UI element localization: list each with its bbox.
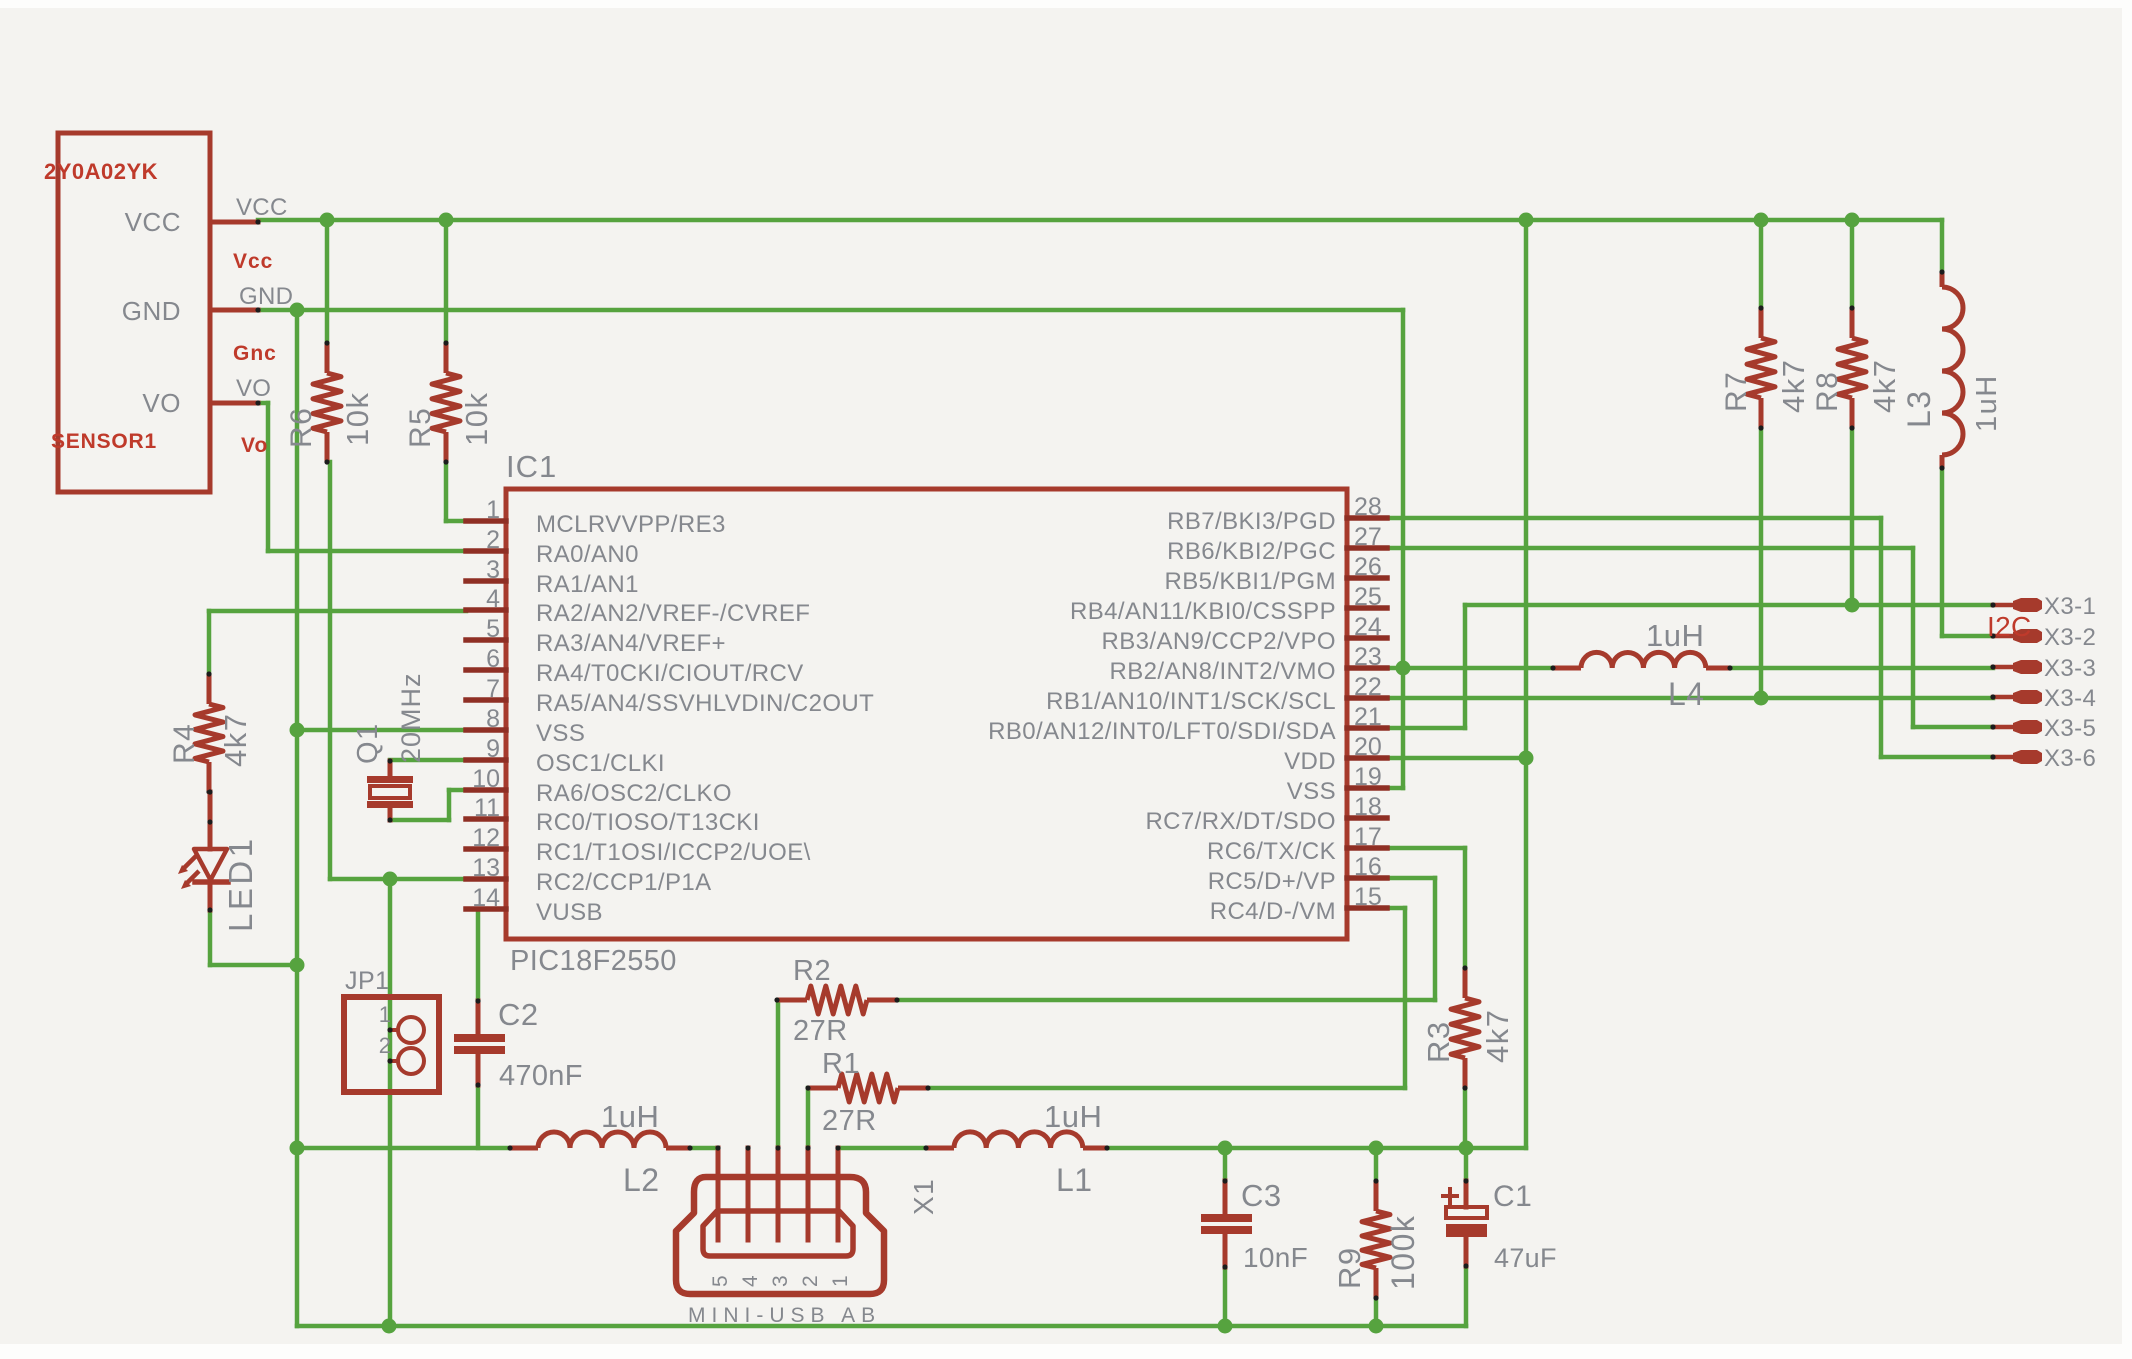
- junction VCC/main vertical: [1519, 213, 1534, 228]
- connector pad X3-1: [1993, 603, 2016, 608]
- inductor L1 1uH: [926, 1146, 954, 1151]
- svg-text:11: 11: [474, 794, 500, 822]
- ic pin 23 stub: [1347, 665, 1387, 671]
- wire GND vertical left: [295, 310, 300, 1326]
- svg-text:L3: L3: [1901, 389, 1937, 428]
- wire pin23 GND to L4 and X3-3: [1387, 666, 1553, 671]
- svg-text:1uH: 1uH: [1646, 618, 1704, 653]
- wire RA2 pin4: [209, 609, 466, 614]
- svg-text:1: 1: [379, 1002, 391, 1027]
- ic pin 8 stub: [466, 727, 506, 733]
- wire VSS pin8: [297, 728, 466, 733]
- svg-text:RC1/T1OSI/ICCP2/UOE\: RC1/T1OSI/ICCP2/UOE\: [536, 839, 811, 866]
- svg-text:2Y0A02YK: 2Y0A02YK: [44, 159, 158, 184]
- connector pad X3-3: [1993, 665, 2016, 670]
- svg-text:RB2/AN8/INT2/VMO: RB2/AN8/INT2/VMO: [1110, 658, 1336, 685]
- svg-text:RA5/AN4/SSVHLVDIN/C2OUT: RA5/AN4/SSVHLVDIN/C2OUT: [536, 690, 874, 717]
- ic pin 3 stub: [466, 578, 506, 584]
- wire GND rail: [258, 308, 1403, 313]
- ic pin 12 stub: [466, 846, 506, 852]
- svg-text:4k7: 4k7: [1480, 1009, 1515, 1063]
- svg-text:4k7: 4k7: [218, 713, 253, 767]
- wire USB pin3 to R2: [776, 1000, 781, 1148]
- ic pin 17 stub: [1347, 845, 1387, 851]
- svg-text:RB6/KBI2/PGC: RB6/KBI2/PGC: [1167, 538, 1336, 565]
- svg-text:4: 4: [739, 1275, 762, 1287]
- svg-text:RC4/D-/VM: RC4/D-/VM: [1210, 898, 1336, 925]
- svg-text:100k: 100k: [1385, 1215, 1421, 1290]
- ic pin 4 stub: [466, 607, 506, 613]
- svg-text:3: 3: [486, 556, 500, 584]
- svg-text:18: 18: [1354, 793, 1382, 821]
- svg-text:27R: 27R: [822, 1105, 877, 1137]
- svg-text:2: 2: [379, 1033, 391, 1058]
- ic pin 18 stub: [1347, 815, 1387, 821]
- jumper JP1 pin 2 pad: [398, 1048, 424, 1074]
- wire RC2 pin13: [330, 877, 466, 882]
- svg-text:14: 14: [472, 884, 500, 912]
- svg-text:RA2/AN2/VREF-/CVREF: RA2/AN2/VREF-/CVREF: [536, 600, 810, 627]
- ic pin 10 stub: [466, 787, 506, 793]
- svg-text:JP1: JP1: [345, 967, 390, 995]
- resistor R4 4k7: [207, 674, 212, 704]
- svg-text:X3-5: X3-5: [2044, 715, 2096, 742]
- junction R7/X3-4: [1754, 691, 1769, 706]
- wire USB pin2 to R1: [806, 1088, 811, 1148]
- svg-text:28: 28: [1354, 493, 1382, 521]
- svg-text:10k: 10k: [340, 392, 375, 446]
- wire OSC1 pin9: [390, 758, 466, 763]
- svg-text:VSS: VSS: [536, 720, 585, 747]
- svg-text:X3-4: X3-4: [2044, 685, 2096, 712]
- svg-text:RB3/AN9/CCP2/VPO: RB3/AN9/CCP2/VPO: [1102, 628, 1336, 655]
- ic pin 16 stub: [1347, 875, 1387, 881]
- junction GND/pin23: [1396, 661, 1411, 676]
- resistor R8 4k7: [1850, 308, 1855, 338]
- svg-text:27: 27: [1354, 523, 1382, 551]
- wire pin22 to X3-4: [1387, 696, 1993, 701]
- svg-text:C1: C1: [1493, 1180, 1532, 1213]
- svg-text:RA0/AN0: RA0/AN0: [536, 541, 639, 568]
- connector pad X3-6: [1993, 755, 2016, 760]
- ic pin 1 stub: [466, 518, 506, 524]
- jumper JP1 pin 1 pad: [398, 1017, 424, 1043]
- svg-text:VO: VO: [142, 388, 181, 418]
- svg-text:RC5/D+/VP: RC5/D+/VP: [1208, 868, 1336, 895]
- junction JP1/pin13: [383, 872, 398, 887]
- wire VBUS rail: [1107, 1146, 1526, 1151]
- svg-text:12: 12: [472, 824, 500, 852]
- svg-text:GND: GND: [239, 283, 293, 310]
- svg-text:I2C: I2C: [1987, 611, 2031, 642]
- sensor pin VO stub: [210, 401, 258, 406]
- svg-text:RA1/AN1: RA1/AN1: [536, 571, 639, 598]
- svg-text:OSC1/CLKI: OSC1/CLKI: [536, 750, 665, 777]
- wire LED cathode to GND: [208, 910, 213, 965]
- svg-text:Gnc: Gnc: [233, 342, 277, 365]
- svg-text:MINI-USB AB: MINI-USB AB: [688, 1304, 881, 1327]
- resistor R2 27R: [777, 998, 807, 1003]
- ic pin 14 stub: [466, 906, 506, 912]
- ic pin 6 stub: [466, 667, 506, 673]
- connector X1 pin 4 lead: [746, 1148, 751, 1240]
- svg-text:9: 9: [486, 735, 500, 763]
- svg-text:7: 7: [486, 675, 500, 703]
- svg-text:RB7/BKI3/PGD: RB7/BKI3/PGD: [1167, 508, 1336, 535]
- svg-text:GND: GND: [122, 296, 181, 326]
- junction GND/L2 rail: [290, 1141, 305, 1156]
- ic pin 27 stub: [1347, 545, 1387, 551]
- svg-text:15: 15: [1354, 883, 1382, 911]
- wire VDD pin20: [1387, 756, 1526, 761]
- connector X1 pin 2 lead: [806, 1148, 811, 1240]
- svg-text:X3-3: X3-3: [2044, 655, 2096, 682]
- svg-text:1uH: 1uH: [601, 1099, 659, 1134]
- wire VUSB pin14 to C2: [466, 907, 478, 912]
- svg-text:4: 4: [486, 585, 500, 613]
- junction C3 bottom: [1218, 1319, 1233, 1334]
- svg-text:RB4/AN11/KBI0/CSSPP: RB4/AN11/KBI0/CSSPP: [1070, 598, 1336, 625]
- svg-text:1: 1: [829, 1275, 852, 1287]
- svg-text:RC0/TIOSO/T13CKI: RC0/TIOSO/T13CKI: [536, 809, 760, 836]
- wire R8 top: [1850, 220, 1855, 308]
- ic pin 2 stub: [466, 548, 506, 554]
- wire pin27 to X3-5: [1387, 546, 1913, 551]
- svg-text:26: 26: [1354, 553, 1382, 581]
- svg-text:1uH: 1uH: [1044, 1099, 1102, 1134]
- resistor R3 4k7: [1463, 968, 1468, 998]
- svg-text:RC6/TX/CK: RC6/TX/CK: [1207, 838, 1336, 865]
- svg-text:25: 25: [1354, 583, 1382, 611]
- svg-text:19: 19: [1354, 763, 1382, 791]
- connector X1 MINI-USB outline: [676, 1177, 884, 1294]
- ic pin 25 stub: [1347, 605, 1387, 611]
- wire pin17 to R3: [1387, 846, 1465, 851]
- wire JP1 vertical: [388, 879, 393, 1326]
- svg-text:6: 6: [486, 645, 500, 673]
- wire GND to L2: [297, 1146, 510, 1151]
- svg-text:R9: R9: [1332, 1246, 1367, 1289]
- sensor pin GND stub: [210, 308, 258, 313]
- svg-text:VDD: VDD: [1284, 748, 1336, 775]
- svg-text:RB1/AN10/INT1/SCK/SCL: RB1/AN10/INT1/SCK/SCL: [1046, 688, 1336, 715]
- svg-text:2: 2: [799, 1275, 822, 1287]
- svg-text:27R: 27R: [793, 1015, 848, 1047]
- led LED1 emission arrows: [183, 856, 196, 869]
- ic pin 21 stub: [1347, 725, 1387, 731]
- svg-text:22: 22: [1354, 673, 1382, 701]
- wire L3 top: [1940, 220, 1945, 272]
- capacitor C1 47uF polarized: [1446, 1207, 1487, 1218]
- junction VCC/R5: [439, 213, 454, 228]
- junction VSS pin8: [290, 723, 305, 738]
- sensor pin VCC stub: [210, 220, 258, 225]
- junction LED/GND: [290, 958, 305, 973]
- svg-text:3: 3: [769, 1275, 792, 1287]
- svg-text:21: 21: [1354, 703, 1382, 731]
- wire C3 taps: [1223, 1148, 1228, 1181]
- ic pin 28 stub: [1347, 515, 1387, 521]
- svg-text:R1: R1: [822, 1048, 860, 1080]
- junction C1/R3: [1459, 1141, 1474, 1156]
- wire pin19 VSS: [1387, 786, 1403, 791]
- svg-text:Vcc: Vcc: [233, 250, 273, 273]
- svg-text:C3: C3: [1241, 1178, 1282, 1213]
- junction VCC/R7: [1754, 213, 1769, 228]
- svg-text:X3-2: X3-2: [2044, 624, 2096, 651]
- svg-text:5: 5: [486, 615, 500, 643]
- svg-text:20MHz: 20MHz: [396, 672, 426, 763]
- svg-text:Q1: Q1: [352, 722, 384, 764]
- svg-text:R2: R2: [793, 955, 831, 987]
- junction C3 top: [1218, 1141, 1233, 1156]
- svg-text:VCC: VCC: [125, 207, 181, 237]
- svg-text:PIC18F2550: PIC18F2550: [510, 945, 677, 977]
- ic pin 22 stub: [1347, 695, 1387, 701]
- jumper JP1 box: [344, 997, 439, 1092]
- ic pin 9 stub: [466, 757, 506, 763]
- svg-text:VUSB: VUSB: [536, 899, 603, 926]
- svg-text:C2: C2: [498, 997, 539, 1032]
- connector X1 pin 1 lead: [836, 1148, 841, 1240]
- connector X1 pin 5 lead: [716, 1148, 721, 1240]
- wire L2 to USB pin5: [690, 1146, 718, 1151]
- svg-text:X3-1: X3-1: [2044, 593, 2096, 620]
- ic pin 13 stub: [466, 876, 506, 882]
- svg-text:IC1: IC1: [506, 449, 557, 484]
- svg-text:8: 8: [486, 705, 500, 733]
- svg-text:VSS: VSS: [1287, 778, 1336, 805]
- svg-text:10k: 10k: [459, 392, 494, 446]
- junction JP1/bottom rail: [382, 1319, 397, 1334]
- svg-text:VCC: VCC: [236, 194, 288, 221]
- junction R9 bottom: [1369, 1319, 1384, 1334]
- svg-text:47uF: 47uF: [1494, 1243, 1557, 1273]
- ic IC1 PIC18F2550 body: [506, 489, 1347, 939]
- svg-text:RA3/AN4/VREF+: RA3/AN4/VREF+: [536, 630, 726, 657]
- svg-text:20: 20: [1354, 733, 1382, 761]
- inductor L4 1uH: [1553, 666, 1581, 671]
- svg-text:L1: L1: [1056, 1162, 1093, 1198]
- wire R2 to pin16: [897, 998, 1435, 1003]
- ic pin 24 stub: [1347, 635, 1387, 641]
- wire L3 to X3-2: [1940, 468, 1945, 636]
- resistor R6 10k: [325, 343, 330, 373]
- junction VDD pin20: [1519, 751, 1534, 766]
- junction GND rail: [290, 303, 305, 318]
- wire VCC top rail: [258, 218, 1942, 223]
- wire pin1 from R5: [444, 462, 449, 521]
- svg-text:4k7: 4k7: [1867, 359, 1902, 413]
- svg-text:RA4/T0CKI/CIOUT/RCV: RA4/T0CKI/CIOUT/RCV: [536, 660, 804, 687]
- wire crystal to pin10: [390, 818, 449, 823]
- connector pad X3-5: [1993, 725, 2016, 730]
- svg-text:5: 5: [709, 1275, 732, 1287]
- wire R9 taps: [1374, 1148, 1379, 1181]
- wire VO from sensor: [258, 401, 268, 406]
- wire C1 top: [1464, 1148, 1469, 1181]
- connector X1 pin 3 lead: [776, 1148, 781, 1240]
- connector pad X3-2: [1993, 634, 2016, 639]
- svg-text:LED1: LED1: [222, 835, 259, 932]
- svg-text:1uH: 1uH: [1971, 374, 2003, 432]
- svg-text:Vo: Vo: [241, 434, 268, 457]
- resistor R1 27R: [808, 1086, 838, 1091]
- capacitor C2 470nF: [454, 1034, 505, 1042]
- svg-text:X1: X1: [908, 1178, 939, 1215]
- svg-text:R6: R6: [285, 407, 318, 448]
- svg-text:MCLRVVPP/RE3: MCLRVVPP/RE3: [536, 511, 726, 538]
- capacitor C3 10nF: [1201, 1214, 1252, 1222]
- svg-text:RC2/CCP1/P1A: RC2/CCP1/P1A: [536, 869, 712, 896]
- wire R1 to pin15: [928, 1086, 1405, 1091]
- wire USB pin1 to L1: [838, 1146, 926, 1151]
- svg-text:4k7: 4k7: [1776, 359, 1811, 413]
- inductor L2 1uH: [510, 1146, 538, 1151]
- ic pin 11 stub: [466, 816, 506, 822]
- svg-text:L2: L2: [623, 1162, 660, 1198]
- svg-text:16: 16: [1354, 853, 1382, 881]
- svg-text:24: 24: [1354, 613, 1382, 641]
- ic pin 7 stub: [466, 697, 506, 703]
- ic pin 26 stub: [1347, 575, 1387, 581]
- svg-text:R7: R7: [1720, 371, 1753, 412]
- connector X1 tongue: [703, 1211, 853, 1256]
- svg-text:RB5/KBI1/PGM: RB5/KBI1/PGM: [1164, 568, 1336, 595]
- led LED1: [208, 792, 213, 849]
- svg-text:10nF: 10nF: [1243, 1242, 1308, 1273]
- svg-text:17: 17: [1354, 823, 1382, 851]
- junction VCC/R6: [320, 213, 335, 228]
- svg-text:23: 23: [1354, 643, 1382, 671]
- wire bottom GND rail: [297, 1324, 1466, 1329]
- connector pad X3-4: [1993, 695, 2016, 700]
- svg-text:RC7/RX/DT/SDO: RC7/RX/DT/SDO: [1145, 808, 1336, 835]
- svg-text:R3: R3: [1421, 1020, 1456, 1063]
- ic pin 20 stub: [1347, 755, 1387, 761]
- svg-text:X3-6: X3-6: [2044, 745, 2096, 772]
- svg-text:13: 13: [472, 854, 500, 882]
- ic pin 5 stub: [466, 637, 506, 643]
- wire pin21 to X3-1: [1387, 726, 1465, 731]
- ic pin 19 stub: [1347, 785, 1387, 791]
- svg-text:10: 10: [472, 765, 500, 793]
- svg-text:VO: VO: [236, 375, 271, 402]
- wire R8 bottom: [1850, 428, 1855, 605]
- svg-text:RA6/OSC2/CLKO: RA6/OSC2/CLKO: [536, 780, 732, 807]
- svg-text:SENSOR1: SENSOR1: [51, 430, 157, 453]
- svg-text:R5: R5: [404, 407, 437, 448]
- resistor R7 4k7: [1759, 308, 1764, 338]
- crystal Q1 20MHz: [367, 776, 413, 783]
- wire R5 top: [444, 220, 449, 343]
- wire RA0 pin2: [268, 549, 466, 554]
- wire R3 bottom: [1463, 1088, 1468, 1148]
- wire R6 top: [325, 220, 330, 343]
- svg-text:1: 1: [486, 496, 500, 524]
- svg-text:470nF: 470nF: [499, 1060, 583, 1092]
- junction VCC/R8: [1845, 213, 1860, 228]
- wire pin28 to X3-6: [1387, 516, 1881, 521]
- junction R9 top: [1369, 1141, 1384, 1156]
- wire R7 top: [1759, 220, 1764, 308]
- ic pin 15 stub: [1347, 905, 1387, 911]
- inductor L3 1uH: [1940, 272, 1945, 287]
- resistor R9 100k: [1374, 1181, 1379, 1211]
- svg-text:R8: R8: [1811, 371, 1844, 412]
- sensor SENSOR1 2Y0A02YK box: [58, 133, 210, 492]
- svg-text:RB0/AN12/INT0/LFT0/SDI/SDA: RB0/AN12/INT0/LFT0/SDI/SDA: [988, 718, 1336, 745]
- svg-text:L4: L4: [1668, 676, 1705, 712]
- junction R8/X3-1: [1845, 598, 1860, 613]
- svg-text:R4: R4: [168, 723, 201, 764]
- resistor R5 10k: [444, 343, 449, 373]
- wire R7 bottom: [1759, 428, 1764, 698]
- svg-text:2: 2: [486, 526, 500, 554]
